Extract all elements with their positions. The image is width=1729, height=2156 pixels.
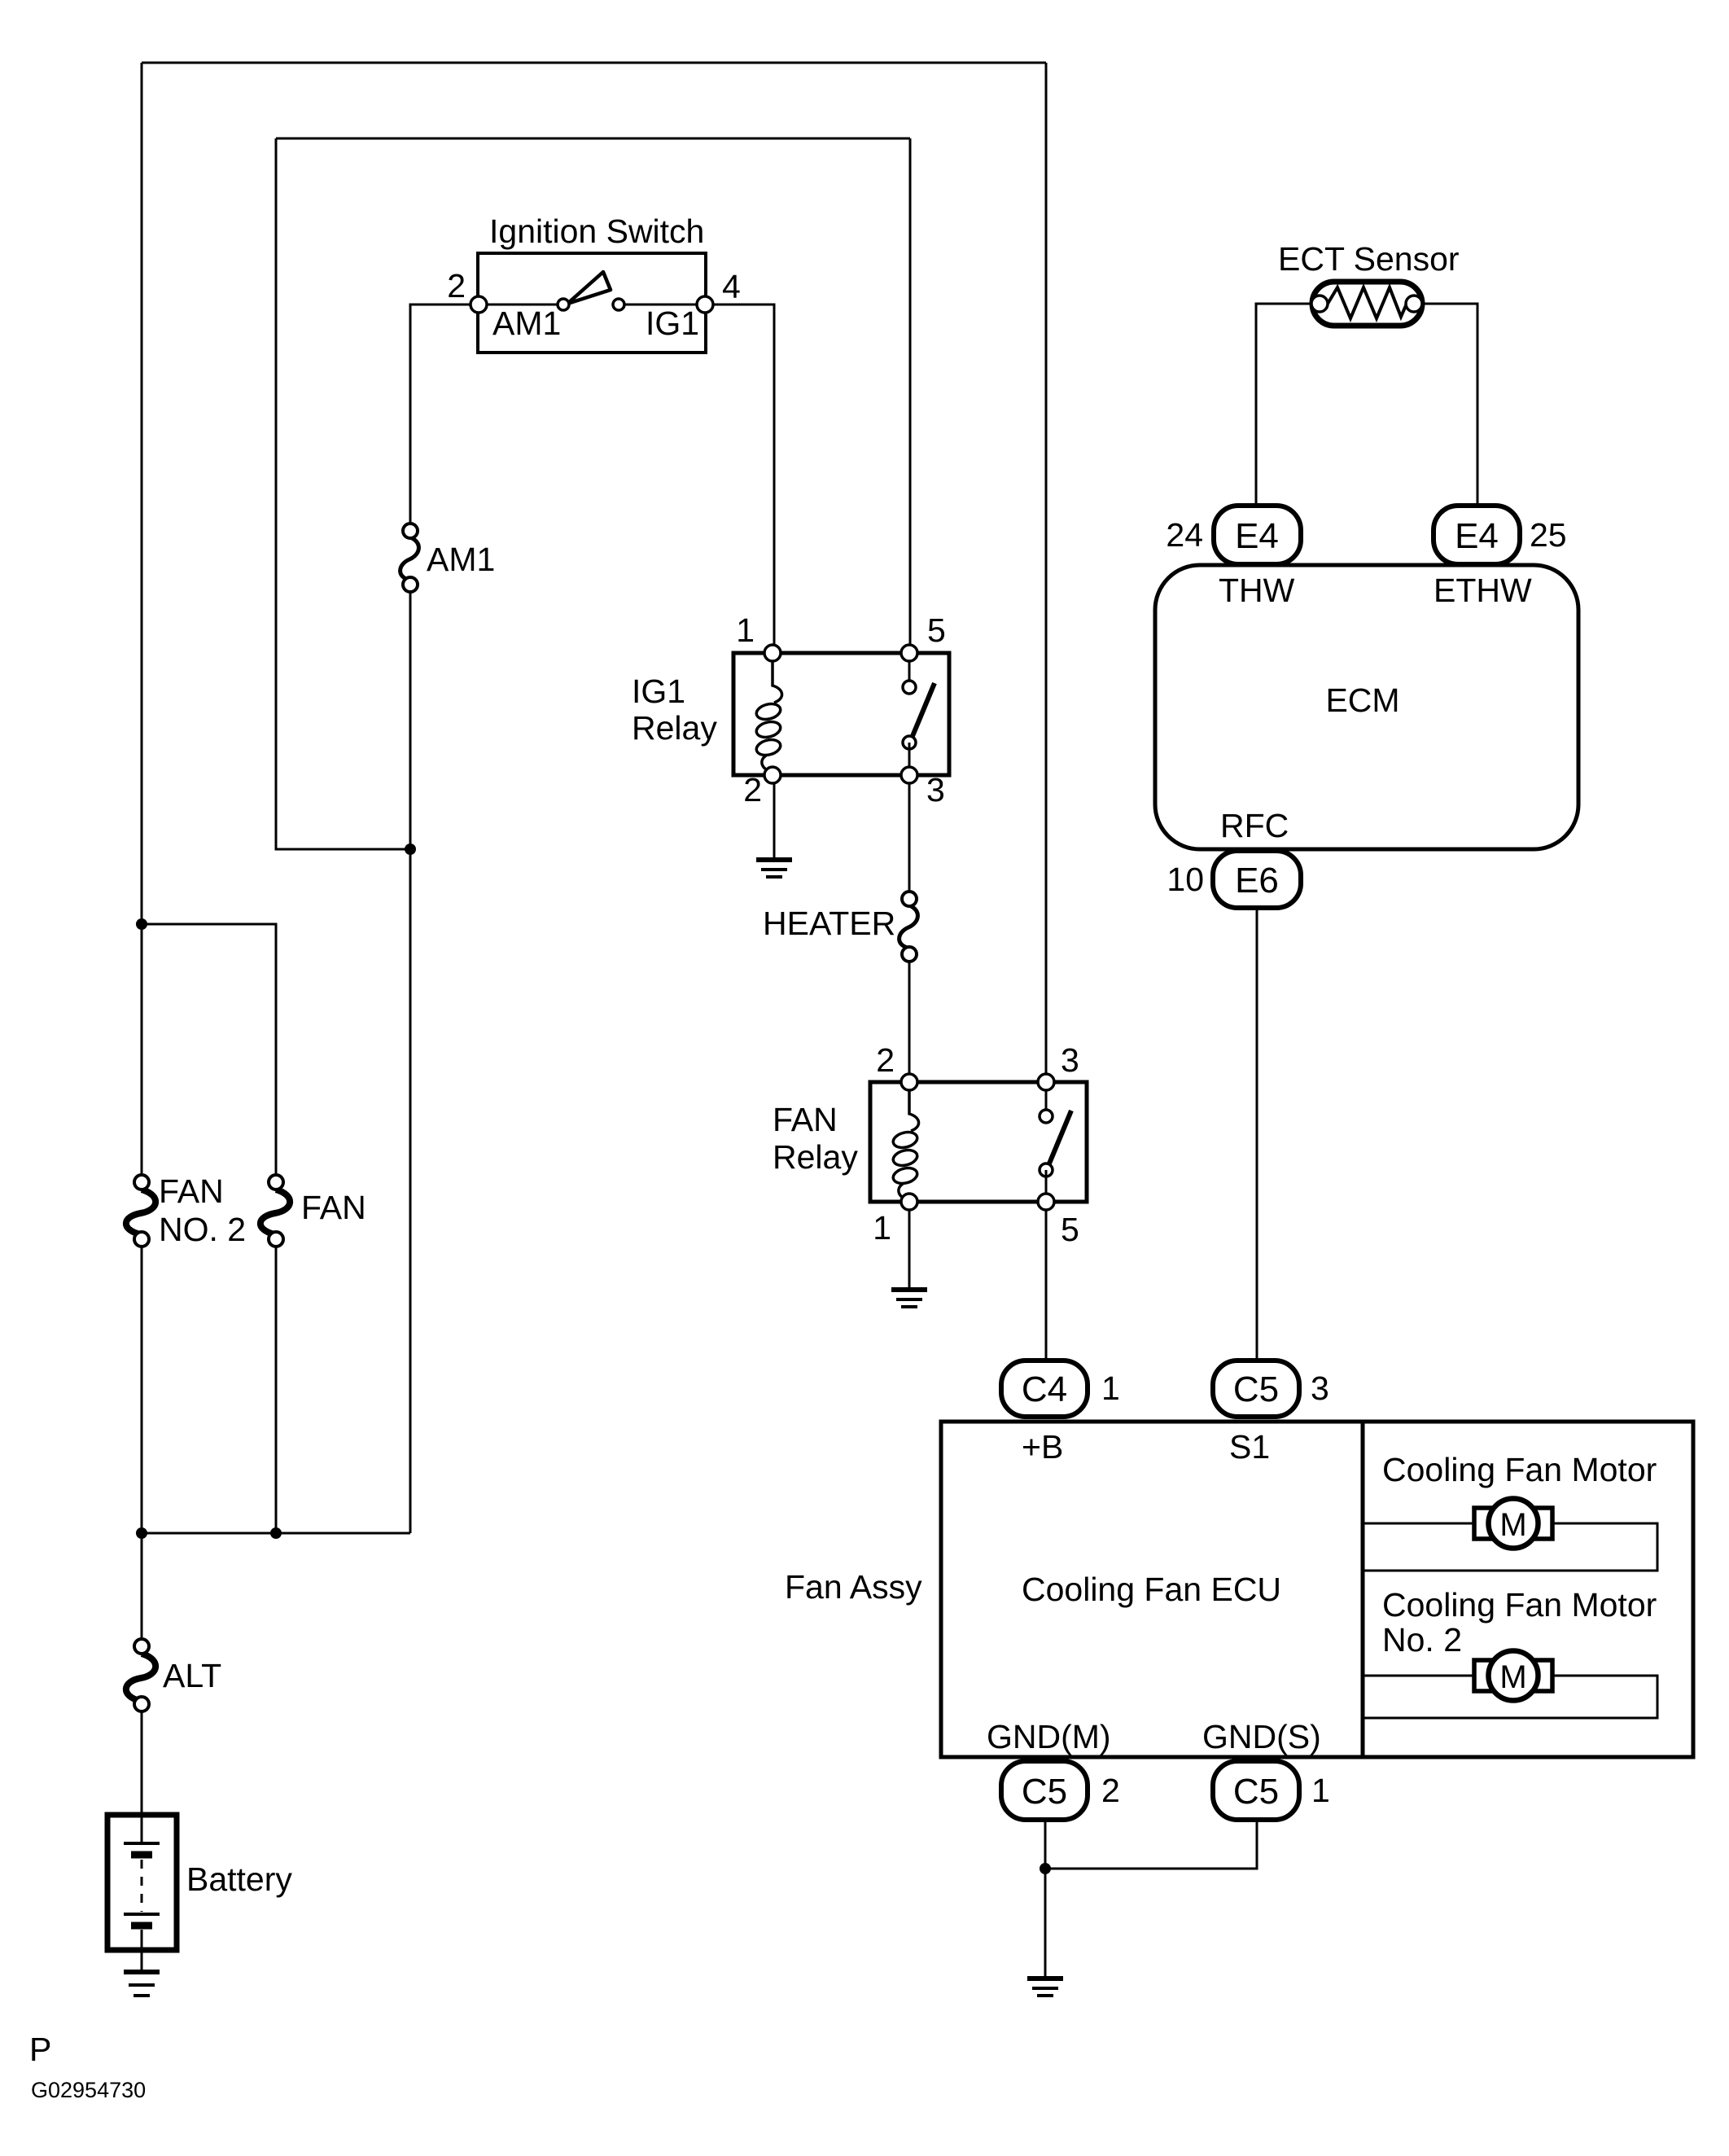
wire GND(S) C5 pin 1 to ground junction: [1045, 1820, 1257, 1869]
svg-text:C4: C4: [1022, 1369, 1067, 1409]
svg-text:FAN: FAN: [159, 1172, 224, 1210]
svg-text:C5: C5: [1233, 1369, 1279, 1409]
wire ignition switch internal AM1 contact: [479, 304, 563, 306]
wire ignition switch IG1 lead to IG1 relay pin 1: [705, 305, 774, 653]
label Cooling Fan Motor No. 2: [1382, 1586, 1657, 1659]
svg-text:GND(S): GND(S): [1202, 1718, 1321, 1755]
ground at FAN relay pin 1: [891, 1290, 927, 1307]
relay FAN switch contact: [1040, 1082, 1071, 1202]
Fan Assy outer box (Cooling Fan ECU + motors): [941, 1422, 1693, 1757]
svg-text:Cooling Fan Motor: Cooling Fan Motor: [1382, 1451, 1657, 1488]
svg-text:24: 24: [1166, 516, 1203, 554]
svg-text:Fan Assy: Fan Assy: [785, 1568, 922, 1606]
svg-text:5: 5: [1061, 1211, 1079, 1248]
node junction FAN fuse line bottom: [270, 1527, 282, 1539]
wire ignition switch AM1 lead down through AM1 fuse to fan fuses bus: [410, 305, 479, 531]
svg-text:25: 25: [1530, 516, 1567, 554]
fuse FAN: [260, 1175, 290, 1247]
switch SW1 Ignition Switch box: [478, 253, 706, 353]
wire cooling fan motor no.2 loop: [1363, 1676, 1657, 1718]
svg-text:3: 3: [1311, 1369, 1329, 1407]
svg-text:ALT: ALT: [163, 1657, 221, 1694]
wire IG1 relay pin 3 through HEATER fuse to FAN relay pin 2: [908, 775, 911, 899]
wire GND(M) C5 pin 2 to ground: [1044, 1820, 1047, 1977]
label FAN NO. 2 fuse: [159, 1172, 246, 1248]
wire inner right vertical to IG1 relay pin 5: [909, 138, 912, 653]
wire cooling fan motor loop: [1363, 1523, 1657, 1571]
sensor ECT terminal right: [1406, 296, 1422, 312]
relay FAN terminal 5: [1038, 1194, 1054, 1210]
svg-text:E4: E4: [1235, 516, 1279, 556]
svg-text:Cooling Fan ECU: Cooling Fan ECU: [1022, 1571, 1281, 1608]
fuse FAN NO. 2: [126, 1175, 155, 1247]
fuse ALT: [126, 1639, 155, 1711]
wire ignition switch internal IG1 contact: [619, 304, 705, 306]
svg-text:NO. 2: NO. 2: [159, 1211, 246, 1248]
svg-text:C5: C5: [1233, 1772, 1279, 1812]
wire FAN relay pin 5 to connector C4: [1045, 1202, 1048, 1361]
svg-text:Relay: Relay: [632, 709, 717, 747]
divider between Cooling Fan ECU and motors: [1361, 1422, 1365, 1757]
connector E4 pin 25 (ETHW): [1434, 506, 1520, 564]
relay IG1 terminal 2: [764, 767, 781, 783]
svg-text:IG1: IG1: [646, 305, 699, 342]
svg-text:1: 1: [1311, 1772, 1330, 1809]
svg-text:1: 1: [873, 1209, 891, 1247]
svg-text:Relay: Relay: [773, 1138, 858, 1176]
relay IG1 terminal 1: [764, 645, 781, 661]
svg-text:THW: THW: [1219, 572, 1295, 609]
fuse HEATER: [900, 892, 918, 962]
relay IG1 terminal 5: [901, 645, 917, 661]
svg-text:RFC: RFC: [1220, 807, 1289, 844]
connector C5 pin 2 (GND(M)): [1001, 1761, 1088, 1820]
svg-text:FAN: FAN: [773, 1101, 838, 1138]
wire inner left vertical down to AM1 branch: [276, 138, 410, 849]
wire IG1 relay pin 2 to ground: [773, 775, 776, 858]
svg-text:G02954730: G02954730: [31, 2078, 146, 2102]
switch SW1 contact AM1: [558, 299, 569, 310]
wire ECT sensor pin to ECM THW via E4: [1256, 304, 1320, 506]
switch SW1 contact IG1: [613, 299, 624, 310]
ground at battery negative: [124, 1972, 160, 1996]
svg-text:4: 4: [722, 268, 741, 305]
svg-text:ECM: ECM: [1325, 681, 1399, 719]
svg-text:IG1: IG1: [632, 673, 685, 710]
svg-text:AM1: AM1: [492, 305, 561, 342]
svg-text:10: 10: [1167, 861, 1204, 898]
svg-text:+B: +B: [1022, 1428, 1063, 1466]
node junction AM1 branch: [405, 844, 416, 855]
ground at cooling fan ECU GND: [1027, 1979, 1063, 1996]
svg-text:ECT Sensor: ECT Sensor: [1278, 240, 1460, 278]
svg-text:AM1: AM1: [427, 541, 495, 578]
motor M1 Cooling Fan Motor: [1474, 1499, 1552, 1549]
fuse AM1: [401, 524, 419, 592]
wire battery positive main vertical (left bus): [141, 63, 143, 1182]
ECM U1 box: [1155, 565, 1578, 849]
svg-text:FAN: FAN: [301, 1189, 366, 1226]
svg-text:C5: C5: [1022, 1772, 1067, 1812]
wire bottom collector of fuse lines: [142, 1532, 410, 1535]
resistor thermistor inside ECT sensor: [1328, 287, 1407, 318]
svg-text:P: P: [29, 2031, 51, 2068]
relay FAN Relay box: [870, 1082, 1087, 1202]
svg-text:Ignition Switch: Ignition Switch: [489, 213, 704, 250]
svg-text:2: 2: [1101, 1772, 1120, 1809]
svg-text:GND(M): GND(M): [987, 1718, 1111, 1755]
battery BT1 cells: [124, 1815, 160, 1970]
wire cooling fan motor no.2 loop: [1363, 1676, 1657, 1718]
connector E4 pin 24 (THW): [1214, 506, 1301, 564]
svg-text:1: 1: [736, 611, 755, 649]
relay FAN terminal 3: [1038, 1074, 1054, 1090]
svg-text:E4: E4: [1455, 516, 1499, 556]
motor M2 Cooling Fan Motor No. 2: [1474, 1651, 1552, 1701]
connector C5 pin 1 (GND(S)): [1213, 1761, 1299, 1820]
wire inner top horizontal: [276, 138, 910, 140]
svg-text:Cooling Fan Motor: Cooling Fan Motor: [1382, 1586, 1657, 1624]
svg-text:1: 1: [1101, 1369, 1120, 1407]
svg-text:Battery: Battery: [186, 1860, 292, 1898]
ground at IG1 relay pin 2: [756, 860, 792, 877]
svg-text:M: M: [1499, 1659, 1526, 1695]
wire branch from left bus to FAN fuse line: [142, 924, 276, 1182]
relay IG1 switch contact: [903, 653, 935, 775]
relay FAN terminal 1: [901, 1194, 917, 1210]
connector E6 pin 10 (RFC): [1213, 851, 1301, 908]
connector C4 pin 1 (+B): [1001, 1361, 1088, 1417]
svg-text:2: 2: [743, 771, 762, 808]
switch SW1 terminal 4: [697, 296, 713, 313]
relay IG1 Relay box: [733, 653, 949, 775]
svg-text:E6: E6: [1235, 861, 1279, 901]
wire outer top horizontal from left bus to FAN relay pin 3: [142, 62, 1046, 64]
svg-text:ETHW: ETHW: [1434, 572, 1532, 609]
connector C5 pin 3 (S1): [1213, 1361, 1299, 1417]
svg-text:3: 3: [926, 771, 945, 808]
label FAN Relay: [773, 1101, 858, 1176]
node junction left bus FAN branch: [136, 918, 147, 930]
svg-text:S1: S1: [1229, 1428, 1270, 1466]
svg-text:5: 5: [927, 611, 946, 649]
label IG1 Relay: [632, 673, 717, 747]
wire ECT sensor pin to ECM ETHW via E4: [1414, 304, 1477, 506]
relay FAN coil: [891, 1082, 918, 1202]
svg-text:M: M: [1499, 1507, 1526, 1543]
svg-text:2: 2: [876, 1041, 895, 1079]
node junction ground of C5 connectors: [1040, 1863, 1051, 1874]
relay FAN terminal 2: [901, 1074, 917, 1090]
svg-text:3: 3: [1061, 1041, 1079, 1079]
battery BT1 box: [107, 1815, 177, 1950]
switch SW1 lever: [567, 272, 611, 304]
node junction left bus bottom: [136, 1527, 147, 1539]
relay IG1 coil: [755, 653, 781, 775]
relay IG1 terminal 3: [901, 767, 917, 783]
svg-text:2: 2: [447, 267, 466, 305]
wire FAN relay pin 1 to ground: [908, 1202, 911, 1288]
sensor ECT terminal left: [1311, 296, 1328, 312]
wire right vertical down to FAN relay pin 3: [1045, 63, 1048, 1082]
svg-text:HEATER: HEATER: [763, 905, 895, 942]
sensor ECT Sensor body: [1312, 282, 1422, 326]
wire ECM RFC E6 to connector C5 pin 3: [1256, 908, 1258, 1361]
svg-text:No. 2: No. 2: [1382, 1621, 1462, 1659]
wire cooling fan motor loop: [1363, 1523, 1657, 1571]
switch SW1 terminal 2: [471, 296, 487, 313]
